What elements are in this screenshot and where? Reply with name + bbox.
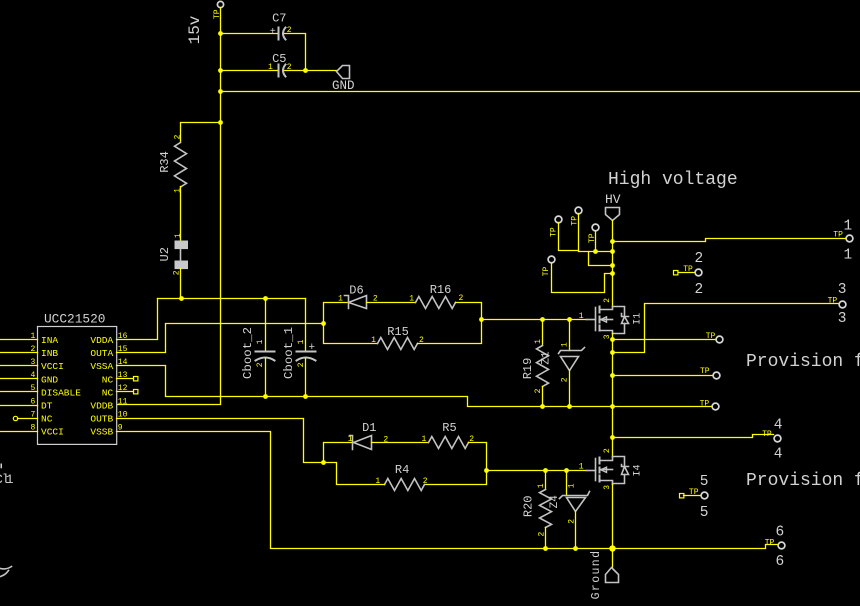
svg-text:Ground: Ground [590, 550, 603, 600]
svg-text:3: 3 [30, 358, 35, 367]
junction OUTB D1/R4 [321, 460, 326, 465]
test point TP conn3 [839, 301, 846, 308]
wire TP5 on switch node [613, 375, 713, 377]
test point TP B on HV [575, 207, 582, 214]
wire 15v bus y=91 to right edge [221, 91, 860, 93]
op-amp U1 UCC21520 gate driver IC [38, 311, 117, 444]
wire gate net Q4 [487, 470, 587, 472]
svg-text:1: 1 [409, 294, 414, 303]
test point TP conn6 [778, 542, 785, 549]
wire R16 down to gate net [456, 303, 482, 320]
junction gate4/R20 [543, 468, 548, 473]
junction switch/conn3 loop [610, 350, 615, 355]
capacitor Cboot_1 [282, 327, 316, 379]
svg-text:DISABLE: DISABLE [41, 387, 81, 398]
svg-text:U2: U2 [158, 247, 172, 261]
junction C7/C5/GND [303, 68, 308, 73]
wire VSSA pin14 to switch-node rail [117, 366, 713, 407]
wire HV down to Q1 drain [612, 221, 614, 306]
svg-text:2: 2 [423, 477, 428, 486]
resistor R4 [375, 463, 427, 491]
svg-text:2: 2 [603, 298, 612, 303]
svg-text:D6: D6 [349, 284, 363, 298]
junction Z1 bottom [567, 404, 572, 409]
pad conn pin5 stub [680, 494, 684, 498]
capacitor C5 [268, 52, 292, 77]
svg-text:NC: NC [102, 387, 114, 398]
svg-text:R19: R19 [521, 358, 535, 380]
svg-text:7: 7 [30, 410, 35, 419]
pin 2 INB [0, 345, 58, 359]
wire R20 bottom [545, 528, 547, 549]
wire R5 down to gate net Q4 [469, 443, 487, 471]
pin 12 NC no-connect square [102, 384, 138, 398]
svg-text:2: 2 [694, 282, 703, 298]
svg-text:Z4: Z4 [549, 495, 561, 509]
wire conn pin2 stub [679, 272, 696, 274]
junction HV/TP branch2 [610, 263, 615, 268]
pin 9 VSSB [90, 423, 122, 437]
svg-text:R15: R15 [387, 325, 409, 339]
resistor R16 [409, 283, 463, 308]
test point TP conn1 [846, 235, 853, 242]
junction Q4 source / ground rail [609, 545, 615, 551]
wire OUTA up to D6 anode [324, 303, 348, 324]
svg-text:12: 12 [118, 384, 128, 393]
diode D1 [348, 421, 389, 450]
svg-text:2: 2 [561, 377, 570, 382]
svg-text:2: 2 [458, 294, 463, 303]
svg-text:TP: TP [689, 488, 699, 497]
svg-text:1: 1 [371, 336, 376, 345]
svg-text:VCCI: VCCI [41, 361, 64, 372]
svg-text:2: 2 [256, 362, 265, 367]
junction Cboot_2 top [263, 296, 268, 301]
resistor R5 [421, 421, 474, 449]
wire gate net Q1 [482, 319, 587, 321]
junction TP C joins bundle [593, 249, 598, 254]
wire VSSB pin9 to power ground rail [117, 432, 779, 549]
pin 3 VCCI [0, 358, 64, 372]
svg-text:1: 1 [561, 342, 570, 347]
svg-text:I1: I1 [633, 313, 644, 325]
svg-text:TP: TP [700, 367, 710, 376]
svg-text:1: 1 [256, 339, 265, 344]
svg-text:+: + [308, 342, 315, 354]
wire R15 up to gate net [418, 320, 482, 344]
svg-text:TP: TP [765, 538, 775, 547]
svg-text:TP: TP [706, 332, 716, 341]
svg-text:R16: R16 [430, 283, 452, 297]
svg-text:4: 4 [30, 371, 35, 380]
svg-text:1: 1 [567, 483, 576, 488]
wire 15v to R34 top [181, 123, 221, 143]
svg-text:INA: INA [41, 335, 58, 346]
svg-text:GND: GND [41, 374, 58, 385]
svg-text:NC: NC [102, 374, 114, 385]
pin 13 NC no-connect square [102, 371, 138, 385]
test point TP on 15v rail top [217, 1, 223, 7]
wire R19 top [542, 320, 544, 346]
svg-text:6: 6 [776, 524, 785, 540]
svg-text:UCC21520: UCC21520 [44, 311, 105, 326]
resistor R34 [158, 134, 186, 193]
junction switch/TP4 wire [610, 337, 615, 342]
capacitor Cboot_2 [241, 327, 274, 379]
wire D6 to R16 [367, 302, 416, 304]
svg-text:VDDB: VDDB [90, 400, 113, 411]
svg-text:8: 8 [30, 423, 35, 432]
test point TP conn4 [774, 435, 781, 442]
wire OUTA pin15 to gate network [117, 324, 324, 353]
svg-text:2: 2 [30, 345, 35, 354]
svg-text:HV: HV [605, 192, 621, 207]
wire R34 bottom to U2 [180, 187, 182, 241]
stray symbol arc bottom left [1, 567, 12, 577]
svg-text:1: 1 [30, 332, 35, 341]
wire Cboot_2 top [265, 299, 267, 352]
capacitor C7 [270, 11, 292, 39]
svg-text:3: 3 [603, 485, 612, 490]
junction R5/R4 gate node Q4 [484, 468, 489, 473]
svg-text:Provision fo: Provision fo [746, 352, 860, 372]
svg-text:TP: TP [833, 231, 843, 240]
svg-text:NC: NC [41, 413, 53, 424]
pin 1 INA [0, 332, 58, 346]
svg-text:TP: TP [700, 399, 710, 408]
svg-text:1: 1 [338, 294, 343, 303]
svg-text:1: 1 [844, 247, 853, 263]
test point TP conn5 [701, 492, 708, 499]
test point TP D on HV [548, 256, 555, 263]
wire conn pin4 [613, 435, 774, 438]
wire Cboot_1 bottom [305, 359, 307, 397]
junction Z4 bottom [573, 546, 578, 551]
svg-text:TP: TP [542, 267, 551, 277]
svg-text:Provision fo: Provision fo [746, 471, 860, 491]
wire to Ground symbol [612, 549, 614, 568]
resistor R19 [521, 339, 549, 394]
svg-text:R4: R4 [395, 463, 409, 477]
svg-text:Cboot_2: Cboot_2 [241, 327, 255, 379]
svg-text:VCCI: VCCI [41, 427, 64, 438]
svg-text:TP: TP [828, 296, 838, 305]
svg-text:D1: D1 [362, 421, 376, 435]
wire Z4 top [566, 471, 568, 495]
wire 15v rail vertical x=220 down to VDDB pin 11 [117, 8, 221, 405]
svg-text:1: 1 [579, 462, 584, 471]
pin 4 GND [0, 371, 58, 385]
zener diode Z1 [541, 342, 585, 382]
svg-text:Z1: Z1 [541, 351, 553, 365]
transistor I1 N-MOSFET high side [579, 298, 644, 340]
svg-text:2: 2 [694, 251, 703, 267]
junction HV/TP-D branch [610, 271, 615, 276]
junction U2/boot rail [179, 296, 184, 301]
svg-text:VDDA: VDDA [90, 335, 113, 346]
test point TP switch node upper [716, 336, 723, 343]
wire Cboot_2 bottom [265, 359, 267, 397]
wire TP B down [579, 214, 613, 252]
junction gate4/Z4 [564, 468, 569, 473]
svg-text:3: 3 [838, 311, 847, 327]
wire conn pin5 stub [684, 495, 702, 497]
zener diode Z4 [549, 483, 590, 524]
svg-text:VSSA: VSSA [90, 361, 113, 372]
svg-text:1: 1 [174, 233, 183, 238]
svg-text:DT: DT [41, 400, 53, 411]
transistor I4 N-MOSFET low side [579, 448, 644, 490]
svg-text:C7: C7 [272, 11, 286, 25]
pin 15 OUTA [90, 345, 127, 359]
resistor R15 [371, 325, 424, 349]
wire TP A [559, 223, 579, 251]
wire U2 bottom to VDDA net [180, 269, 182, 299]
svg-text:4: 4 [774, 447, 783, 463]
svg-text:2: 2 [297, 362, 306, 367]
junction HV/TP cluster [610, 249, 615, 254]
junction R16/R15 gate node [479, 317, 484, 322]
wire D1 to R5 [372, 442, 429, 444]
wire R20 top [545, 471, 547, 490]
ground GND tag symbol [332, 66, 355, 94]
ground symbol Ground flag [590, 550, 618, 600]
pin 7 NC with open circle [13, 410, 52, 424]
junction switch/TP5 wire [610, 373, 615, 378]
diode D6 [338, 284, 378, 309]
junction gate/R19 [540, 317, 545, 322]
svg-text:Cboot_1: Cboot_1 [282, 327, 296, 379]
svg-text:5: 5 [700, 505, 709, 521]
junction 15v/C5 [218, 68, 223, 73]
wire R4 back to OUTB junction [324, 463, 385, 485]
test point TP on VSSA rail [712, 403, 719, 410]
wire TP4 on switch node [613, 339, 717, 341]
svg-text:VSSB: VSSB [90, 427, 113, 438]
svg-text:+: + [270, 27, 276, 38]
svg-text:1: 1 [421, 435, 426, 444]
svg-text:TP: TP [550, 227, 559, 237]
svg-text:2: 2 [174, 134, 183, 139]
wire conn pin3 loop [613, 304, 839, 353]
pin 8 VCCI [0, 423, 64, 437]
wire C5 left [221, 70, 278, 72]
junction R19 bottom [540, 404, 545, 409]
svg-text:3: 3 [838, 282, 847, 298]
svg-text:OUTA: OUTA [90, 348, 113, 359]
wire R4 up to gate net Q4 [425, 471, 487, 485]
svg-text:C5: C5 [272, 52, 286, 66]
junction switch/conn4 wire [610, 435, 615, 440]
svg-text:1: 1 [174, 188, 183, 193]
wire switch node Q1 source to Q4 drain [612, 334, 614, 457]
wire Z1 bottom [569, 371, 571, 407]
svg-text:R34: R34 [158, 151, 172, 173]
connector CN1 partial at left edge [0, 464, 14, 488]
svg-text:R5: R5 [442, 421, 456, 435]
wire Z1 top [569, 320, 571, 351]
svg-text:1: 1 [844, 218, 853, 234]
junction Cboot_1 bottom [303, 394, 308, 399]
junction gate/Z1 [567, 317, 572, 322]
wire TP D around to drain [552, 264, 613, 293]
svg-text:1: 1 [537, 483, 546, 488]
wire Cboot_1 top from boot rail corner [305, 299, 307, 352]
wire VDDA boot rail y=298 [158, 298, 306, 300]
junction 15v/C7 [218, 31, 223, 36]
resistor R20 [522, 483, 552, 536]
wire Z4 bottom [575, 512, 577, 549]
test point TP A on HV [555, 216, 562, 223]
svg-text:1: 1 [297, 339, 306, 344]
wire TP bundle drop to second junction [589, 252, 613, 266]
svg-text:I4: I4 [633, 464, 644, 476]
junction R20 bottom [543, 546, 548, 551]
pin 5 DISABLE [0, 384, 81, 398]
junction switch node / VSSA rail [610, 404, 615, 409]
svg-text:TP: TP [762, 430, 772, 439]
test point TP C on HV [592, 224, 599, 231]
junction HV/conn1 wire [610, 239, 615, 244]
pad conn pin2 stub [674, 271, 678, 275]
wire OUTB up to D1 anode [324, 443, 353, 463]
power flag HV symbol [605, 192, 621, 220]
wire OUTB pin10 to gate network Q4 [117, 419, 324, 463]
junction 15v/R34 [218, 120, 223, 125]
wire OUTA down to R15 [324, 324, 378, 344]
svg-text:11: 11 [118, 397, 128, 406]
wire Q4 source down [612, 485, 614, 549]
pin 16 VDDA [90, 332, 127, 346]
junction OUTA D6/R15 [321, 321, 326, 326]
pin 10 OUTB [90, 410, 127, 424]
svg-text:4: 4 [774, 418, 783, 434]
pin 11 VDDB [90, 397, 127, 411]
junction 15v/bus [218, 89, 223, 94]
wire conn pin1 from HV [613, 239, 846, 242]
svg-text:1: 1 [6, 472, 14, 487]
junction Cboot_2 bottom [263, 394, 268, 399]
svg-text:6: 6 [776, 554, 785, 570]
svg-text:INB: INB [41, 348, 58, 359]
wire VDDA pin16 up to boot rail [117, 299, 158, 340]
svg-text:6: 6 [30, 397, 35, 406]
svg-text:2: 2 [534, 388, 543, 393]
svg-text:13: 13 [118, 371, 128, 380]
ferrite bead U2 [158, 233, 188, 275]
test point TP conn2 [695, 269, 702, 276]
wire C7 left [221, 33, 278, 35]
wire C5 to GND [285, 70, 337, 72]
wire TP C down [595, 232, 597, 252]
svg-text:R20: R20 [522, 495, 536, 517]
svg-text:15v: 15v [186, 15, 204, 44]
svg-text:1: 1 [348, 435, 353, 444]
svg-text:5: 5 [30, 384, 35, 393]
svg-text:1: 1 [579, 312, 584, 321]
test point TP switch node mid [713, 372, 720, 379]
svg-text:5: 5 [700, 474, 709, 490]
svg-text:1: 1 [534, 339, 543, 344]
pin 14 VSSA [90, 358, 127, 372]
wire C7 right down to C5 right [285, 34, 306, 71]
wire R19 bottom [542, 387, 544, 407]
svg-text:2: 2 [603, 448, 612, 453]
pin 6 DT [0, 397, 53, 411]
svg-text:OUTB: OUTB [90, 413, 113, 424]
svg-text:1: 1 [268, 63, 273, 72]
svg-text:TP: TP [683, 265, 693, 274]
svg-text:High voltage: High voltage [608, 170, 738, 190]
